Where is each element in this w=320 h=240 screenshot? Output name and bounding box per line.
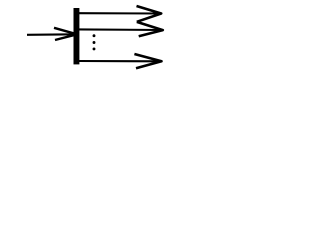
arrowhead input [54, 28, 77, 40]
wire output 1 [79, 12, 160, 14]
ellipsis dot 1 [93, 34, 96, 37]
arrowhead output 2 [137, 22, 163, 36]
bus bar [74, 8, 80, 64]
wire input shaft [27, 33, 76, 36]
wire output 2 [79, 28, 162, 31]
ellipsis dot 2 [93, 41, 96, 44]
arrowhead output 3 [134, 54, 161, 68]
ellipsis dot 3 [93, 47, 96, 50]
wire output 3 [79, 60, 160, 62]
arrowhead output 1 [137, 6, 162, 22]
